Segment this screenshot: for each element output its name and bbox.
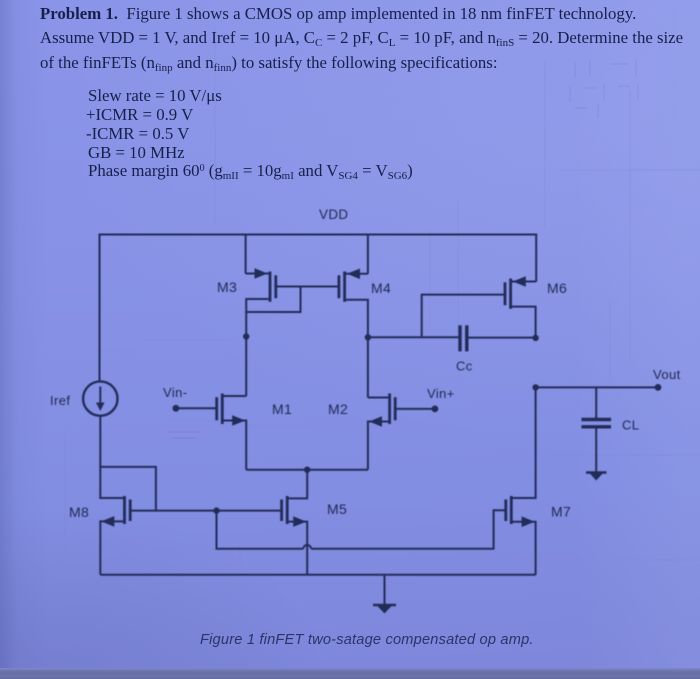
- node dot tail: [304, 467, 310, 473]
- svg-text:M7: M7: [551, 504, 571, 520]
- svg-text:M1: M1: [272, 401, 292, 417]
- wire bias routing to M7 gate (with hop over M5 source): [217, 511, 304, 549]
- svg-text:M6: M6: [547, 280, 567, 296]
- transistor M8 (diode-connected bias): [100, 496, 130, 575]
- ground under CL: [586, 473, 607, 481]
- transistor M1 (input, Vin-): [176, 394, 246, 470]
- wire M3 gate to M4 gate: [276, 286, 339, 288]
- svg-text:CL: CL: [622, 418, 639, 433]
- wire VDD to M4 source: [367, 235, 369, 274]
- svg-text:M4: M4: [371, 280, 391, 296]
- svg-text:M3: M3: [217, 279, 237, 295]
- wire VDD to M3 source: [245, 235, 247, 274]
- svg-text:M5: M5: [327, 501, 347, 517]
- transistor M6 (output stage PMOS): [422, 276, 537, 338]
- node dot M6 drain: [532, 335, 538, 341]
- node dot on M3 drain / M1 drain: [243, 333, 249, 339]
- current source Iref: [83, 381, 117, 415]
- transistor M3 (PMOS, diode-connected, mirror): [246, 268, 276, 396]
- ground stub: [384, 575, 386, 605]
- svg-text:M8: M8: [69, 504, 89, 520]
- capacitor Cc: [368, 325, 536, 351]
- wire gate bias line M8-M5: [130, 510, 281, 512]
- bottom dark strip (photo edge): [0, 668, 700, 679]
- wire Vout: [536, 386, 658, 388]
- node dot A (first stage output): [365, 334, 371, 340]
- wire M3 gate-drain tie: [246, 287, 300, 313]
- terminal Vin-: [173, 405, 180, 412]
- node dot bias: [213, 507, 219, 513]
- svg-text:Cc: Cc: [456, 359, 473, 374]
- svg-text:VDD: VDD: [319, 207, 348, 222]
- transistor M7 (output stage sink): [506, 387, 536, 574]
- terminal Vout: [655, 384, 662, 391]
- svg-text:Iref: Iref: [50, 393, 70, 408]
- specification list: [88, 86, 222, 106]
- caption: [200, 632, 540, 648]
- node dot Vout junction: [532, 384, 538, 390]
- svg-text:Vout: Vout: [653, 367, 681, 382]
- transistor M2 (input, Vin+): [368, 394, 435, 470]
- svg-text:Vin+: Vin+: [427, 386, 455, 401]
- terminal Vin+: [432, 406, 439, 413]
- paragraph text: [40, 4, 636, 24]
- ground symbol: [373, 605, 396, 614]
- svg-text:M2: M2: [328, 401, 348, 417]
- wire Iref to M8 drain: [100, 416, 124, 498]
- wire Iref/M8-drain to gate (diode connection): [100, 467, 156, 511]
- bottom rail VSS: [100, 574, 535, 576]
- wire tail to M5 drain: [288, 470, 307, 499]
- capacitor CL: [582, 387, 612, 472]
- VDD rail: [100, 235, 537, 382]
- svg-text:Vin-: Vin-: [163, 385, 187, 400]
- wire tail node (M1/M2 sources): [246, 469, 368, 471]
- transistor M5 (tail current sink): [282, 496, 308, 575]
- transistor M4 (PMOS, mirror output): [339, 269, 368, 398]
